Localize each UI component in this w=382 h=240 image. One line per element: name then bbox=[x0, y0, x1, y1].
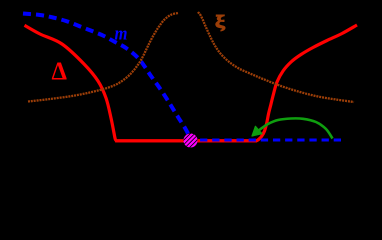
curve Delta (red gap curve) bbox=[25, 25, 358, 141]
curve xi left branch (brown dotted) bbox=[28, 13, 178, 102]
svg-text:Δ: Δ bbox=[52, 58, 68, 85]
curve xi right branch (brown dotted) bbox=[198, 12, 354, 102]
green arrowhead bbox=[252, 126, 262, 136]
svg-text:ξ: ξ bbox=[215, 12, 226, 31]
green arrow (RG flow toward QCP) bbox=[257, 118, 333, 138]
blue dashed horizontal line bbox=[200, 138, 341, 141]
svg-text:m: m bbox=[115, 24, 128, 45]
red horizontal segment (gapless line bottom) bbox=[115, 139, 257, 142]
curve m (blue dashed descending branch) bbox=[23, 14, 190, 137]
QCP marker: hatched magenta circle bbox=[175, 129, 204, 158]
